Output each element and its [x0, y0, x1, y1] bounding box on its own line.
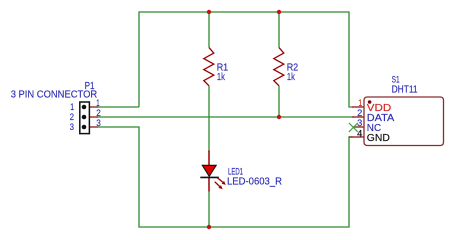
junction dot top R2: [277, 10, 281, 14]
cathode lead: [208, 177, 210, 191]
resistor R1: [204, 48, 214, 86]
sensor S1 DHT11: [349, 97, 444, 146]
pin stub 4 GND: [349, 136, 364, 138]
wire R2 bottom: [278, 86, 280, 117]
LED triangle: [202, 165, 216, 176]
wire LED anode: [208, 117, 210, 152]
wire top rail VDD net: [139, 12, 353, 107]
pin stub 1: [84, 106, 98, 108]
svg-text:4: 4: [357, 128, 362, 138]
wire R1 top: [208, 12, 210, 48]
cathode bar: [200, 176, 219, 178]
svg-text:3 PIN CONNECTOR: 3 PIN CONNECTOR: [11, 90, 98, 101]
wire row1 connector pin1: [98, 106, 139, 108]
svg-text:2: 2: [357, 108, 362, 118]
wire row3 GND net left: [98, 127, 353, 227]
svg-text:LED-0603_R: LED-0603_R: [227, 177, 282, 188]
DHT11 body: [364, 97, 444, 146]
svg-text:3: 3: [70, 122, 74, 132]
svg-text:3: 3: [96, 118, 101, 128]
emission arrow 2: [215, 182, 220, 187]
wire row2 DATA net: [98, 116, 354, 118]
pin contact 2: [82, 115, 87, 120]
pin stub 1 VDD: [352, 106, 364, 108]
svg-text:1k: 1k: [217, 72, 225, 83]
emission arrow 1: [215, 178, 226, 190]
svg-text:2: 2: [96, 108, 101, 118]
wire LED cathode: [208, 192, 210, 227]
svg-text:1k: 1k: [287, 72, 295, 83]
pin stub 3: [84, 126, 98, 128]
svg-text:LED1: LED1: [228, 167, 243, 177]
svg-text:S1: S1: [392, 75, 400, 85]
LED1: [200, 151, 226, 192]
svg-text:1: 1: [358, 98, 362, 108]
pin stub 2: [84, 116, 98, 118]
svg-text:GND: GND: [367, 133, 390, 144]
junction dot LED bottom: [207, 225, 211, 229]
svg-text:1: 1: [70, 102, 74, 112]
svg-text:2: 2: [70, 112, 74, 122]
wire R1 bottom: [208, 86, 210, 117]
connector body: [80, 102, 90, 134]
svg-text:1: 1: [96, 98, 99, 108]
junction dot R2 DATA: [277, 115, 281, 119]
pin contact 1: [82, 105, 87, 110]
resistor R2: [274, 48, 284, 86]
connector P1: [80, 102, 98, 134]
svg-text:DHT11: DHT11: [392, 85, 418, 96]
svg-text:3: 3: [357, 118, 362, 128]
no-connect X pin 3: [349, 123, 358, 132]
pin stub 2 DATA: [352, 116, 364, 118]
pin1 marker dot: [368, 100, 372, 104]
junction dot top R1: [207, 10, 211, 14]
pin stub 3 NC: [353, 126, 364, 128]
pin contact 3: [82, 125, 87, 130]
wire R2 top: [278, 12, 280, 48]
anode lead: [208, 151, 210, 167]
